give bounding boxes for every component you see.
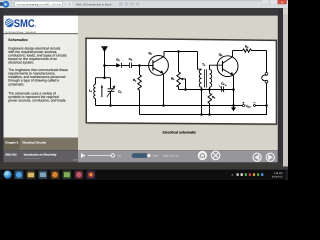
C3 plus sign — [225, 85, 227, 87]
close captions icon — [211, 151, 220, 160]
node J2 — [103, 76, 106, 79]
progress slider — [88, 155, 112, 157]
show desktop sliver — [286, 169, 288, 180]
capacitor C2 — [130, 63, 132, 69]
node C1 bottom — [109, 104, 112, 107]
svg-text:Chapter 5: Chapter 5 — [5, 140, 18, 144]
right beige slide area — [78, 16, 278, 151]
svg-text:electrical system.: electrical system. — [8, 61, 34, 65]
player bar left — [4, 150, 79, 162]
dark band below chrome — [0, 8, 283, 15]
volume slider — [132, 153, 149, 158]
node C3 right at Q2 emitter — [232, 88, 235, 91]
paragraph 1 — [8, 46, 68, 102]
bottom rail B — [140, 106, 267, 115]
wire C2 to node — [132, 65, 140, 67]
speaker icon — [81, 153, 85, 159]
start orb — [4, 171, 12, 179]
svg-text:Schematics: Schematics — [8, 38, 28, 42]
wire D1 to C2 — [121, 65, 129, 67]
player bar right — [78, 150, 278, 162]
left column: white header — [4, 16, 79, 34]
toolbar small icons — [119, 2, 123, 6]
page left dark edge — [0, 8, 4, 169]
T1 core — [205, 69, 207, 87]
node J1 — [103, 64, 106, 67]
address bar buttons — [63, 2, 67, 6]
taskbar icon red app — [75, 170, 84, 179]
svg-text:Electrical schematic: Electrical schematic — [162, 130, 196, 134]
bottom rail A left segment — [96, 105, 243, 107]
earphone — [265, 72, 268, 75]
svg-text:power sources, conductors, and: power sources, conductors, and loads. — [8, 99, 66, 103]
taskbar icon window — [39, 170, 48, 179]
tank circuit wires — [96, 66, 111, 89]
audio replay icon — [198, 151, 207, 160]
node bottom right corner — [265, 104, 268, 107]
T1 secondary bottom lead — [209, 87, 211, 93]
capacitor C1 — [108, 89, 115, 92]
diode D1 — [116, 63, 121, 67]
node T1 primary bottom — [200, 88, 203, 91]
T1 secondary coil — [210, 70, 212, 88]
T1 primary coil — [199, 70, 201, 115]
svg-text:SMC: SMC — [14, 18, 35, 30]
svg-text:Page: 13 of 14: Page: 13 of 14 — [163, 155, 179, 158]
ground — [231, 107, 236, 111]
svg-text:SMC-102: SMC-102 — [5, 153, 17, 156]
T1 secondary top lead to Q2 base — [210, 65, 223, 70]
svg-text:↻: ↻ — [69, 3, 72, 7]
node T1 primary bottom on rail B — [200, 113, 203, 116]
dark strip above taskbar — [0, 162, 283, 169]
node R3 bottom on rail B — [208, 113, 211, 116]
SMC logo globe — [5, 19, 14, 28]
right rail down to earphone — [266, 51, 268, 73]
taskbar icon green app — [63, 170, 72, 179]
transistor Q1 — [149, 56, 169, 76]
bias wire W1 — [179, 89, 234, 91]
wire battery to corner node — [256, 105, 266, 107]
taskbar icon orange app — [51, 170, 60, 179]
node Q1 emitter at rail — [162, 104, 165, 107]
taskbar icon media app — [87, 170, 96, 179]
svg-text:INTERNATIONAL TRAINING: INTERNATIONAL TRAINING — [5, 31, 36, 34]
back button — [3, 1, 9, 7]
schematic panel shadow — [88, 40, 278, 126]
svg-text:Electrical Circuits: Electrical Circuits — [22, 140, 46, 144]
resistor R4 — [243, 49, 267, 52]
transistor Q2 — [217, 56, 238, 77]
resistor R3 — [208, 93, 212, 114]
svg-text:6/10/2013: 6/10/2013 — [272, 176, 283, 179]
circuit drawing — [94, 47, 268, 116]
schematic panel — [86, 38, 277, 124]
resistor R1 — [138, 66, 142, 115]
svg-text:2:08: 2:08 — [73, 158, 77, 161]
browser icon top-left — [0, 2, 4, 6]
taskbar icon IE — [15, 170, 24, 179]
taskbar icon folder — [27, 170, 36, 179]
window controls — [262, 0, 270, 4]
wire J1 to D1 — [105, 65, 117, 67]
C3 variable slash — [219, 85, 225, 93]
battery terminal - — [254, 105, 256, 107]
next page button — [266, 153, 274, 161]
top rail Q1 collector to T1 — [164, 51, 198, 53]
wire node to Q1 base — [140, 65, 153, 67]
antenna — [102, 47, 107, 52]
battery terminal + — [243, 105, 245, 107]
svg-text:SMC 102 Introduction to Electr: SMC 102 Introduction to Electr... — [76, 3, 114, 6]
node secondary bottom — [208, 88, 211, 91]
potentiometer R2 — [177, 52, 181, 90]
node ground junction — [232, 104, 235, 107]
C1 variable arrow — [107, 87, 114, 97]
Q2 collector wire to R4 — [233, 50, 243, 52]
forward button — [9, 2, 14, 7]
address bar — [15, 1, 63, 6]
scrollbar — [283, 8, 288, 166]
prev page button — [253, 153, 261, 161]
capacitor C3 — [222, 86, 224, 91]
svg-text:Introduction to Electricity: Introduction to Electricity — [24, 153, 57, 156]
node at R1 top — [138, 64, 141, 67]
page right dark edge — [278, 8, 283, 169]
svg-text:training.smctraining.com/SMC_1: training.smctraining.com/SMC_102/cont — [17, 3, 62, 6]
R2 wiper — [182, 79, 185, 90]
svg-text:schematic.: schematic. — [8, 82, 24, 86]
chapter bar — [4, 138, 79, 151]
L1 variable arrow — [101, 87, 103, 98]
browser chrome bar — [0, 0, 288, 8]
inductor L1 — [94, 84, 96, 105]
system tray icons — [232, 174, 233, 176]
node wiper to bias wire — [184, 88, 187, 91]
left column: gray content — [4, 34, 79, 137]
taskbar — [0, 169, 288, 180]
transformer T1 primary lead — [198, 52, 202, 70]
node pot top — [177, 50, 180, 53]
svg-text:100%: 100% — [153, 154, 159, 157]
circuit labels — [89, 45, 251, 108]
header divider — [4, 32, 79, 35]
